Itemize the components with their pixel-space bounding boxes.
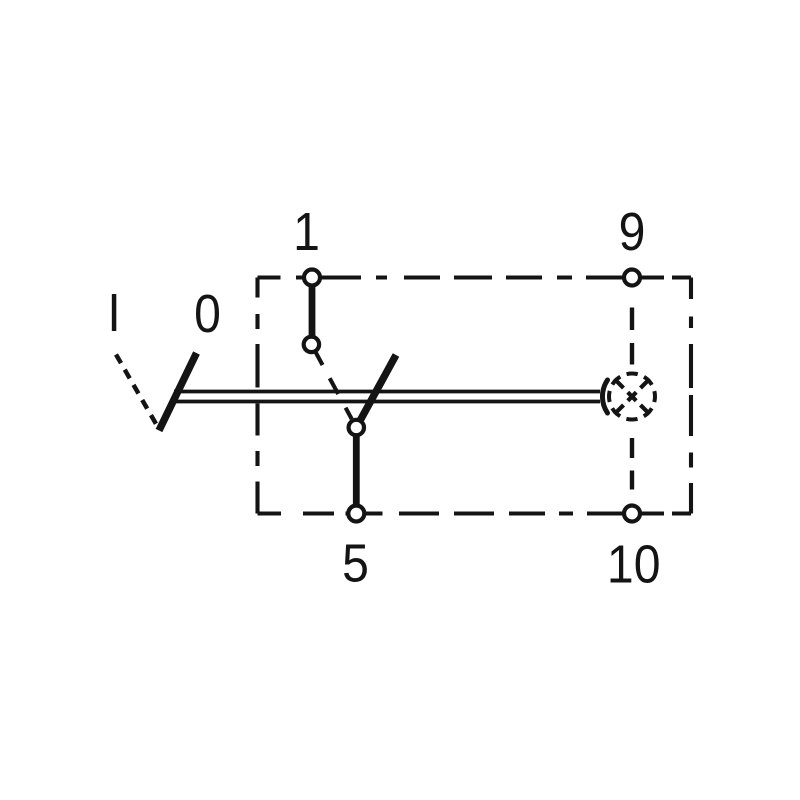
actuator lever dashed (position I) (116, 355, 158, 427)
enclosure dash-dot border: bottom edge (258, 511, 692, 515)
terminal 1 circle (304, 270, 320, 286)
wire: solid stub pivot down to terminal 5 (353, 428, 360, 513)
lamp L: dashed circle (609, 374, 655, 420)
contact node circle below terminal 1 stub (304, 337, 319, 352)
wire: solid stub terminal 1 down to contact (309, 279, 316, 345)
contact dashed alternate position (1-5 closed) (316, 353, 352, 419)
wire: dashed link terminal 9 to lamp (630, 308, 634, 365)
enclosure dash-dot border: right edge (689, 278, 693, 514)
lamp L: dashed diagonal NE-SW (614, 379, 649, 414)
svg-text:I: I (107, 283, 120, 343)
svg-text:1: 1 (293, 202, 320, 262)
svg-text:0: 0 (194, 284, 221, 344)
enclosure dash-dot border: left edge (255, 278, 259, 514)
pivot node circle above terminal 5 (349, 420, 364, 435)
svg-text:9: 9 (619, 202, 646, 262)
wire: dashed link lamp to terminal 10 (630, 438, 634, 490)
actuator lever solid (position 0) (159, 353, 197, 431)
svg-text:5: 5 (342, 533, 369, 593)
moving contact blade (359, 355, 397, 424)
mechanical link bar (double line) lower (174, 400, 600, 404)
terminal 5 circle (348, 506, 364, 522)
terminal 9 circle (624, 270, 640, 286)
svg-text:10: 10 (607, 534, 661, 594)
terminal 10 circle (624, 506, 640, 522)
mechanical link bar (double line) upper (174, 390, 600, 394)
lamp pusher arc (602, 380, 607, 413)
enclosure dash-dot border: top edge (258, 275, 692, 279)
lamp L: dashed diagonal NW-SE (614, 379, 649, 414)
